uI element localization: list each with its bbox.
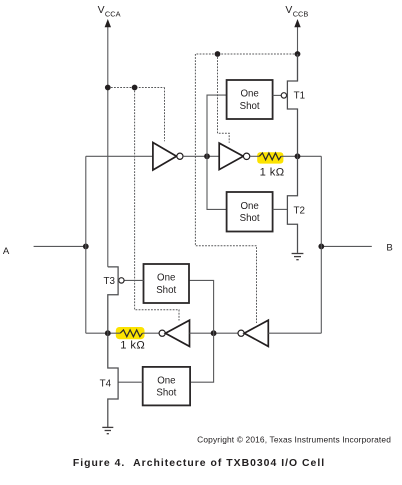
wire: tap to one-shot OS2 input xyxy=(207,156,227,209)
inverter U4 (B-side, left-pointing triangle) xyxy=(244,320,268,346)
power symbol VCCB arrowhead xyxy=(294,19,300,27)
wire: B vertical branch xyxy=(320,156,322,333)
node: one-shot tap on U4-U3 wire xyxy=(211,330,217,336)
wire: B branch to U4 input xyxy=(268,332,321,334)
svg-text:One: One xyxy=(240,89,258,100)
svg-text:Copyright © 2016, Texas Instru: Copyright © 2016, Texas Instruments Inco… xyxy=(197,435,391,445)
svg-text:T2: T2 xyxy=(294,206,305,217)
svg-text:1 kΩ: 1 kΩ xyxy=(260,167,285,179)
ground (T4 source) xyxy=(102,427,113,433)
port A lead wire xyxy=(34,245,86,247)
svg-text:A: A xyxy=(3,246,10,257)
svg-text:V: V xyxy=(285,5,292,16)
wire: dashed VCCA to buffer U1 xyxy=(164,88,166,142)
node: VCCA rail tap junction xyxy=(105,85,111,91)
node B junction xyxy=(318,244,324,250)
wire: dashed VCCB power tap horizontal xyxy=(195,53,297,55)
buffer U1 (A-side driver, triangle) xyxy=(153,143,177,171)
svg-text:1 kΩ: 1 kΩ xyxy=(120,339,145,351)
wire: OS1 output to T1 gate xyxy=(273,94,282,96)
wire: buffer U1 input from A xyxy=(86,155,153,157)
wire: dashed VCCB to inverter U4 xyxy=(195,54,256,323)
resistor R2 highlight (1 kOhm, A-side, yellow marker) xyxy=(116,327,145,339)
node A junction xyxy=(83,244,89,250)
svg-text:One: One xyxy=(240,201,258,212)
svg-text:V: V xyxy=(98,5,105,16)
wire: tap to one-shot OS3 input xyxy=(189,280,214,333)
transistor T1 (PMOS pull-up to VCCB) xyxy=(287,54,297,156)
transistor T4 (NMOS pull-down to GND) xyxy=(108,333,118,427)
node: VCCB dashed branch junction xyxy=(215,51,221,57)
svg-text:T1: T1 xyxy=(294,91,305,102)
one-shot OS4 box xyxy=(143,367,190,406)
buffer U1 output bubble xyxy=(177,153,183,159)
transistor T3 gate bubble xyxy=(119,278,124,283)
wire: tap to one-shot OS4 input xyxy=(190,333,214,382)
node: one-shot tap on U1-U2 wire xyxy=(204,153,210,159)
wire: OS3 output to T3 gate xyxy=(124,279,143,281)
wire: dashed VCCB to buffer U2 xyxy=(218,54,230,143)
wire: resistor R2 to inverter U3 bubble xyxy=(142,332,159,334)
wire: VCCA rail vertical xyxy=(107,23,109,267)
inverter U4 output bubble xyxy=(238,330,244,336)
svg-text:Figure 4. Architecture of TXB: Figure 4. Architecture of TXB0304 I/O Ce… xyxy=(73,458,325,469)
transistor T3 (PMOS pull-up to VCCA) xyxy=(108,267,118,333)
wire: U4 bubble to U3 input xyxy=(190,332,238,334)
resistor R2 (1 kOhm zigzag) xyxy=(120,330,142,337)
svg-text:Shot: Shot xyxy=(240,101,260,112)
one-shot OS1 box xyxy=(227,80,273,119)
wire: bottom rail from A branch xyxy=(86,332,120,334)
wire: A vertical branch xyxy=(85,156,87,333)
buffer U2 (B-side driver, triangle) xyxy=(219,143,243,170)
svg-text:Shot: Shot xyxy=(156,285,176,296)
wire: dashed VCCA power tap horizontal xyxy=(108,87,165,89)
resistor R1 highlight (1 kOhm, B-side, yellow marker) xyxy=(257,152,283,163)
svg-text:CCB: CCB xyxy=(293,9,309,18)
svg-text:B: B xyxy=(386,242,392,253)
inverter U3 output bubble xyxy=(159,330,165,336)
svg-text:T4: T4 xyxy=(100,378,112,389)
svg-text:Shot: Shot xyxy=(240,213,260,224)
power symbol VCCA arrowhead xyxy=(105,19,111,27)
inverter U3 (A-side, left-pointing triangle) xyxy=(165,320,189,346)
one-shot OS2 box xyxy=(227,192,273,232)
wire: resistor R1 to output node xyxy=(281,155,321,157)
wire: U2 bubble to resistor R1 xyxy=(250,155,260,157)
node: T3/T4 output junction xyxy=(105,330,111,336)
node: VCCA dashed branch junction xyxy=(132,85,138,91)
svg-text:One: One xyxy=(157,273,175,284)
svg-text:Shot: Shot xyxy=(156,388,176,399)
one-shot OS3 box xyxy=(144,264,190,303)
resistor R1 (1 kOhm zigzag) xyxy=(259,153,281,160)
transistor T1 gate bubble xyxy=(281,93,286,98)
buffer U2 output bubble xyxy=(243,153,249,159)
wire: OS4 output to T4 gate xyxy=(118,381,143,383)
wire: VCCB rail vertical xyxy=(297,23,299,81)
ground (T2 source) xyxy=(292,254,304,260)
node: VCCB rail tap junction xyxy=(295,51,301,57)
wire: U1 output to U2 input xyxy=(183,155,219,157)
svg-text:CCA: CCA xyxy=(105,9,121,18)
wire: tap to one-shot OS1 input xyxy=(207,95,227,156)
wire: OS2 output to T2 gate xyxy=(273,208,288,210)
svg-text:One: One xyxy=(157,375,175,386)
svg-text:T3: T3 xyxy=(104,276,116,287)
port B lead wire xyxy=(321,245,372,247)
wire: dashed VCCA to inverter U3 xyxy=(135,88,179,321)
transistor T2 (NMOS pull-down to GND) xyxy=(287,156,297,253)
node: B-side driver output junction xyxy=(295,153,301,159)
